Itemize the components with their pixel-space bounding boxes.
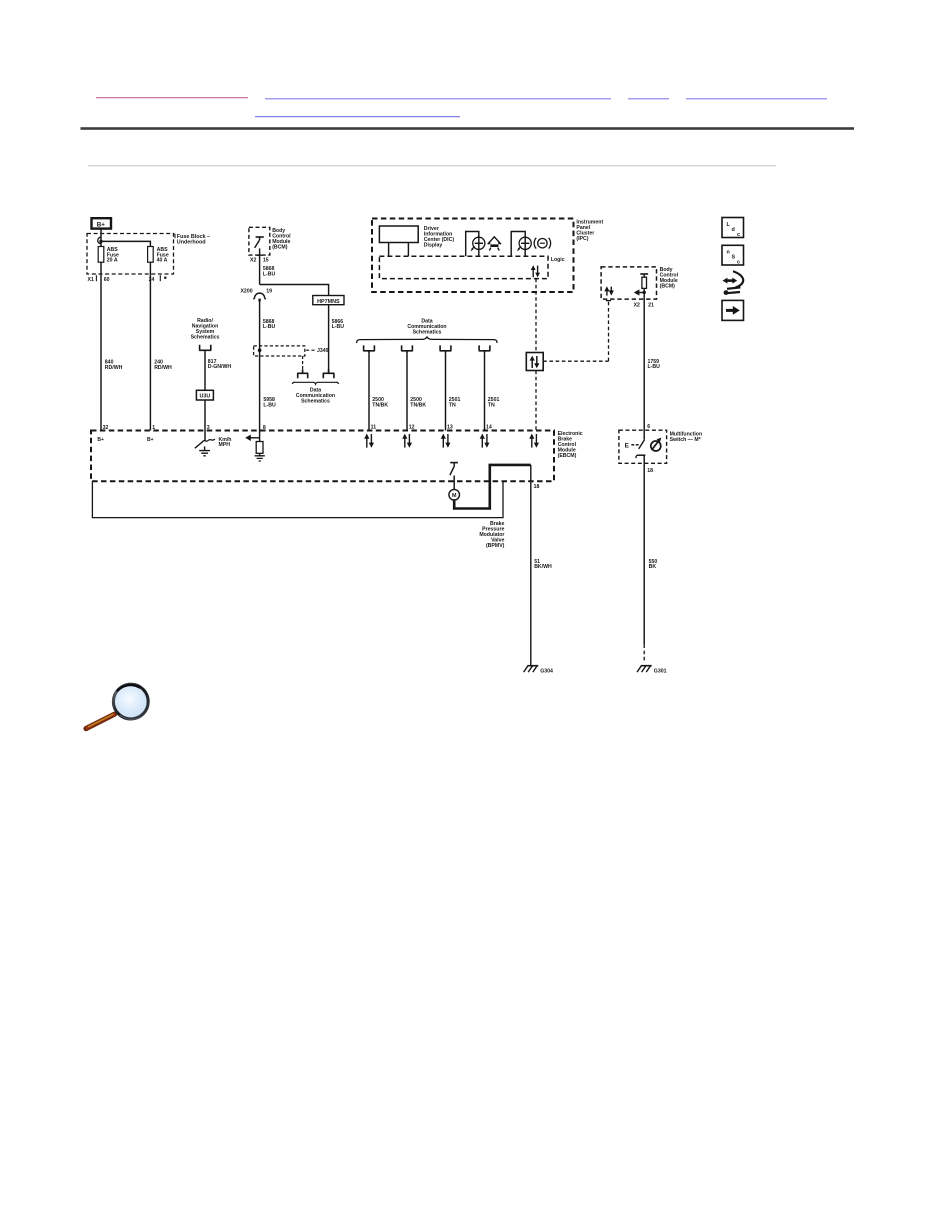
- off-page fork (data wire 1): [363, 345, 375, 353]
- svg-text:S: S: [732, 255, 736, 261]
- multifunction switch dashed box: [619, 430, 667, 463]
- wire label 817 D-GN/WH: [208, 359, 232, 370]
- wire label 5866 L-BU: [332, 319, 345, 330]
- B+ node: [92, 218, 112, 228]
- IPC label: [576, 220, 603, 243]
- telltale lamp 1: [466, 232, 485, 257]
- label data communication (upper): [407, 318, 446, 335]
- svg-text:Schematics: Schematics: [191, 334, 220, 340]
- wire label 240 RD/WH: [154, 360, 172, 371]
- svg-text:20 A: 20 A: [107, 258, 118, 264]
- off-page fork (5866 branch): [323, 369, 335, 378]
- svg-text:(IPC): (IPC): [576, 236, 588, 242]
- svg-text:TN/BK: TN/BK: [372, 403, 388, 409]
- EBCM case wire left: [92, 481, 503, 517]
- svg-text:D-GN/WH: D-GN/WH: [208, 364, 232, 370]
- wire 817 upper: [204, 350, 206, 390]
- label data communication (lower): [296, 388, 335, 405]
- link underline 1 (visited): [96, 97, 248, 99]
- wire label 2501 TN (2): [488, 397, 500, 408]
- off-page connector fork (radio): [199, 345, 211, 351]
- svg-text:d: d: [732, 227, 735, 233]
- pump motor M1: [449, 489, 460, 500]
- serial data arrow out: [245, 431, 259, 442]
- EBCM B+ terminal labels: [97, 437, 153, 443]
- serial data arrows (EBCM pin 4): [480, 434, 490, 448]
- wire 5868 mid: [259, 301, 261, 431]
- svg-text:Underhood: Underhood: [177, 240, 206, 246]
- svg-text:Switch — M*: Switch — M*: [670, 437, 702, 443]
- IPC logic dashed box: [379, 256, 548, 278]
- svg-text:L: L: [727, 222, 731, 228]
- link underline 4: [686, 98, 827, 100]
- BPMV label: [479, 521, 504, 549]
- svg-text:18: 18: [647, 468, 653, 474]
- svg-text:U3U: U3U: [200, 394, 211, 400]
- svg-text:RD/WH: RD/WH: [154, 365, 172, 371]
- link underline 3: [628, 98, 669, 100]
- svg-text:TN/BK: TN/BK: [410, 403, 426, 409]
- motor feed wire thick: [454, 465, 531, 509]
- svg-text:(BPMV): (BPMV): [486, 543, 505, 549]
- telltale ABS icon: [534, 238, 550, 249]
- ground (speed signal): [199, 451, 210, 456]
- wire B+ to fuse block: [100, 229, 102, 247]
- terminating resistor: [256, 442, 263, 454]
- wire label 2501 TN: [449, 397, 461, 408]
- svg-text:15: 15: [263, 258, 269, 264]
- EBCM label: [558, 431, 583, 459]
- off-page fork (data wire 2): [401, 345, 413, 353]
- svg-text:TN: TN: [488, 403, 495, 409]
- brace (data comm lower): [292, 382, 339, 384]
- fuse block label: [175, 234, 210, 246]
- wire from BCM pin: [259, 248, 261, 284]
- electronic brake control module dashed box: [91, 431, 554, 482]
- svg-text:X200: X200: [240, 289, 252, 295]
- svg-text:(BCM): (BCM): [272, 245, 288, 251]
- DIC leg 1: [388, 243, 390, 257]
- off-page fork (J349 branch): [297, 369, 308, 378]
- legend icon box 2: [722, 245, 744, 265]
- inline connector U3U: [196, 390, 213, 400]
- instrument panel cluster dashed box: [372, 219, 574, 293]
- svg-text:X2: X2: [250, 258, 256, 264]
- wire label 1759 L-BU: [648, 359, 661, 370]
- dashed data line from IPC: [535, 279, 537, 353]
- wire 550 BK: [643, 463, 645, 644]
- wire 2500 TN/BK (1): [368, 353, 370, 430]
- body control module U2 dashed box: [601, 267, 656, 299]
- dashed data line node to EBCM: [535, 371, 537, 431]
- connector X200: [240, 289, 272, 302]
- wire label 5868 L-BU mid: [263, 319, 276, 330]
- node junction dot: [99, 240, 102, 243]
- serial data arrows (EBCM pin 1): [364, 434, 374, 448]
- svg-text:c: c: [737, 232, 740, 238]
- svg-text:RD/WH: RD/WH: [105, 365, 123, 371]
- switch blade: [639, 440, 645, 449]
- wire 5866 L-BU: [328, 305, 330, 373]
- brace (data comm upper): [357, 337, 497, 343]
- tick at BCM dashed pin: [606, 300, 611, 302]
- fuse F2 ABS 40A: [148, 247, 169, 264]
- serial data arrows (EBCM pin 3): [441, 434, 451, 448]
- wire label 2500 TN/BK: [372, 397, 388, 408]
- switch E contact: [625, 443, 639, 450]
- wire 2501 TN (1): [445, 353, 447, 430]
- wire pin18 to ground: [530, 465, 532, 666]
- svg-text:X2: X2: [634, 302, 640, 308]
- junction dot at J349: [258, 348, 262, 352]
- wire 2501 TN (2): [484, 353, 486, 430]
- svg-text:BK/WH: BK/WH: [534, 564, 552, 570]
- BCM2 arrow out: [634, 289, 644, 295]
- svg-text:X1: X1: [88, 277, 94, 283]
- wire label 840 RD/WH: [105, 360, 123, 371]
- link underline row2: [255, 116, 460, 118]
- svg-text:n: n: [727, 250, 730, 256]
- svg-text:J349: J349: [317, 348, 329, 354]
- svg-text:21: 21: [648, 302, 654, 308]
- link underline 2: [265, 98, 611, 100]
- wire 817 lower: [204, 400, 206, 431]
- battery feed curl: [98, 237, 101, 244]
- BCM2 internal pullup resistor: [640, 274, 648, 293]
- label Km/h MPH: [219, 437, 232, 448]
- svg-text:G301: G301: [654, 669, 667, 675]
- magnifier icon: [86, 684, 148, 728]
- svg-text:6: 6: [647, 424, 650, 430]
- svg-text:40 A: 40 A: [157, 258, 168, 264]
- telltale lamp 2: [511, 232, 531, 257]
- wire branch to fuse 2: [101, 241, 150, 246]
- wire branch to HP7MNS: [260, 285, 329, 296]
- dashed data line node to BCM: [543, 360, 608, 362]
- DIC display block: [379, 226, 418, 243]
- splice J349 dashed box: [254, 346, 305, 356]
- BCM internal switch: [255, 237, 264, 248]
- svg-text:B+: B+: [97, 221, 105, 228]
- splice pack HP7MNS: [313, 296, 344, 305]
- dashed data line BCM drop: [608, 300, 610, 361]
- svg-text:L-BU: L-BU: [263, 403, 276, 409]
- connector X2 pin 15 labels: [250, 258, 269, 264]
- serial data arrows (EBCM pin 5): [529, 434, 539, 448]
- off-page fork (data wire 4): [479, 345, 491, 353]
- ground G301: [637, 666, 667, 675]
- multifunction switch label: [670, 431, 703, 443]
- serial data arrows (EBCM pin 2): [402, 434, 412, 448]
- telltale traction icon: [488, 237, 501, 251]
- ground G304: [524, 666, 553, 675]
- wire 240 RD/WH: [149, 262, 151, 430]
- splice J349 leader: [306, 349, 315, 351]
- DIC leg 2: [407, 243, 409, 257]
- svg-text:B+: B+: [97, 437, 104, 443]
- svg-text:18: 18: [534, 484, 540, 490]
- svg-text:c: c: [737, 260, 740, 266]
- svg-text:60: 60: [104, 277, 110, 283]
- svg-text:L-BU: L-BU: [263, 271, 276, 277]
- legend icon box 1: [722, 218, 744, 239]
- switch mode icon: [651, 438, 662, 451]
- dashed stub from J349: [302, 356, 304, 369]
- svg-text:Schematics: Schematics: [413, 329, 442, 335]
- serial data arrows (BCM2): [604, 286, 614, 295]
- svg-text:19: 19: [266, 289, 272, 295]
- svg-text:L-BU: L-BU: [332, 324, 345, 330]
- BCM label: [272, 228, 291, 251]
- BCM2 junction dot: [643, 291, 646, 294]
- wire label 51 BK/WH: [534, 559, 552, 570]
- legend icon arrows: [723, 271, 744, 295]
- ground (EBCM internal): [255, 456, 265, 461]
- sub rule light: [88, 165, 776, 166]
- wire 2500 TN/BK (2): [406, 353, 408, 430]
- legend icon box arrow: [722, 300, 744, 320]
- svg-text:(BCM): (BCM): [660, 284, 676, 290]
- EBCM pump relay switch: [450, 463, 458, 490]
- wire from BCM2 pin: [643, 293, 645, 440]
- wire label 550 BK: [649, 559, 658, 570]
- svg-text:Schematics: Schematics: [301, 399, 330, 405]
- fuse block dashed box: [87, 234, 174, 275]
- connector X1 pin labels: [88, 275, 167, 283]
- svg-text:L-BU: L-BU: [263, 324, 276, 330]
- svg-text:BK: BK: [649, 564, 657, 570]
- header rule dark: [81, 127, 855, 130]
- svg-text:B+: B+: [147, 437, 154, 443]
- vehicle speed switch Km/h MPH: [195, 431, 215, 451]
- svg-text:L-BU: L-BU: [648, 364, 661, 370]
- svg-text:M: M: [452, 493, 457, 499]
- wire 840 RD/WH: [100, 262, 102, 430]
- wire label 5958 L-BU: [263, 397, 276, 408]
- BCM2 label: [660, 267, 679, 290]
- svg-text:MPH: MPH: [219, 442, 231, 448]
- wire label 5868 L-BU upper: [263, 266, 276, 277]
- off-page fork (data wire 3): [440, 345, 452, 353]
- wire dashed segment to G301: [643, 644, 645, 662]
- fuse F1 ABS 20A: [98, 247, 119, 264]
- body control module U1 dashed box: [249, 227, 270, 255]
- svg-text:Logic: Logic: [551, 257, 565, 263]
- serial data node box: [526, 353, 543, 371]
- switch lower contact: [636, 455, 645, 463]
- wire label 2500 TN/BK (2): [410, 397, 426, 408]
- radio navigation reference label: [191, 318, 220, 341]
- svg-text:Display: Display: [424, 242, 443, 248]
- connector X2 pin 21 labels: [634, 302, 654, 308]
- svg-text:G304: G304: [540, 669, 553, 675]
- svg-text:(EBCM): (EBCM): [558, 453, 577, 459]
- serial data arrows (IPC): [531, 265, 540, 277]
- svg-text:24: 24: [149, 277, 155, 283]
- svg-text:E: E: [625, 443, 630, 450]
- pin tick X2-15: [257, 254, 263, 256]
- svg-text:TN: TN: [449, 403, 456, 409]
- DIC label: [424, 226, 455, 249]
- svg-text:HP7MNS: HP7MNS: [317, 299, 340, 305]
